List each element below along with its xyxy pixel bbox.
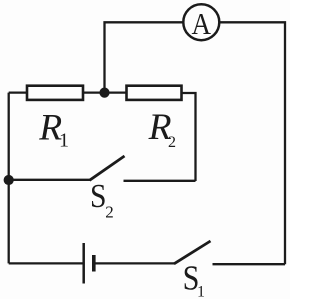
svg-text:1: 1	[197, 284, 205, 299]
svg-text:S: S	[90, 178, 107, 215]
svg-text:2: 2	[105, 202, 114, 221]
ammeter U1 (meter circle)	[183, 4, 219, 40]
svg-text:2: 2	[168, 134, 176, 151]
wire: R2 right side down to S2 right contact	[182, 93, 196, 181]
svg-text:A: A	[192, 6, 212, 41]
node A (junction dot between R1 and R2)	[99, 88, 109, 98]
wire: node A vertical up and across to ammeter	[105, 22, 184, 92]
wire: between R1 and R2 through node A	[83, 91, 127, 93]
wire: bottom left to battery positive plate	[9, 262, 84, 264]
battery B1: long plate	[82, 243, 85, 284]
wire: ammeter right to top-right corner, down right side to S1	[220, 22, 286, 264]
wire: battery to S1 pivot	[96, 262, 175, 264]
node B (junction dot on left wire at S2 branch)	[4, 175, 14, 185]
wire: S2 right contact	[124, 180, 196, 182]
resistor R1	[27, 86, 83, 100]
wire: left branch vertical from R1 stub down to battery corner	[8, 93, 10, 264]
battery B1: short plate	[92, 255, 96, 272]
wire: left stub into R1	[9, 91, 28, 93]
svg-text:1: 1	[59, 130, 69, 152]
wire: S1 right contact to bottom-right corner	[213, 263, 286, 265]
resistor R2	[127, 86, 182, 100]
wire: node B to S2 pivot	[9, 179, 90, 181]
switch S1 (open blade)	[174, 241, 211, 264]
switch S2 (open blade)	[90, 156, 125, 180]
